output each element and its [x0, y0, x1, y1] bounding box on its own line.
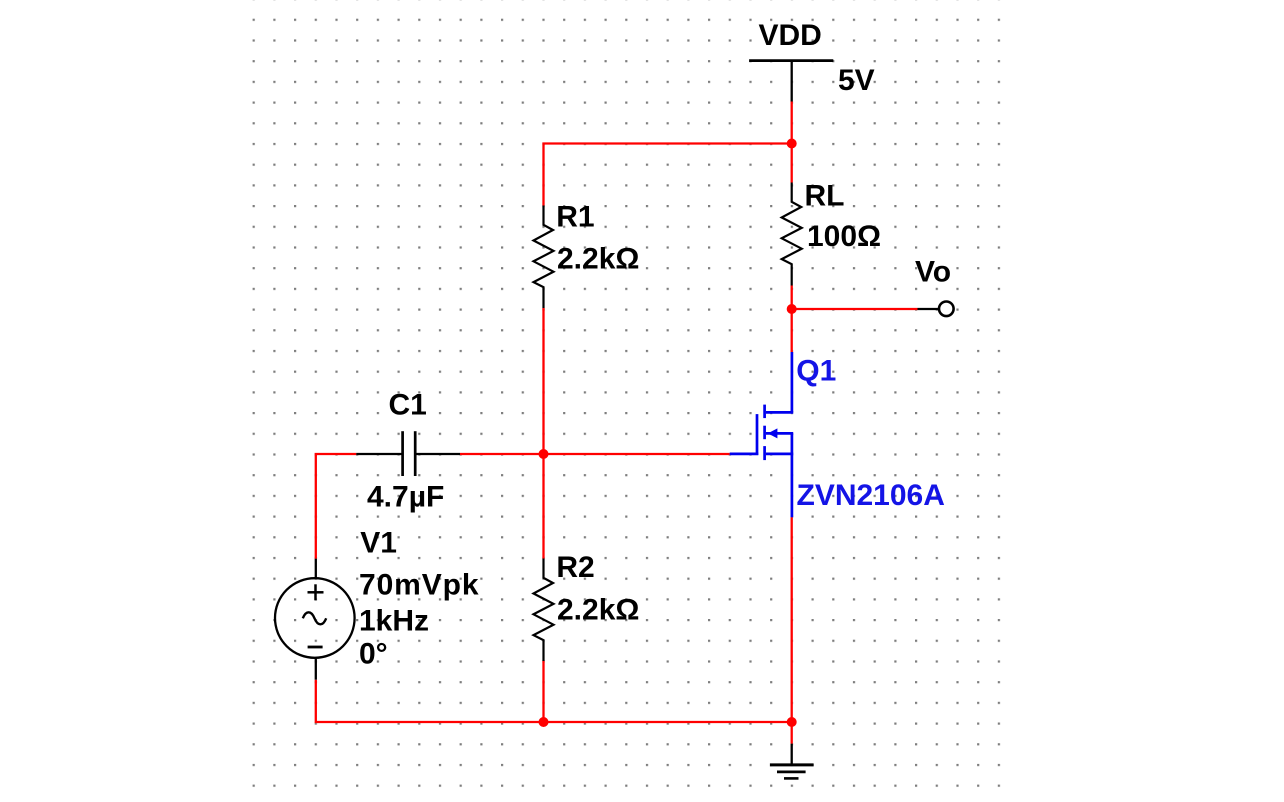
wire Q1 source down to rail [791, 517, 793, 722]
svg-text:2.2kΩ: 2.2kΩ [557, 593, 639, 626]
node junction R1/R2/gate [539, 449, 549, 459]
svg-text:V1: V1 [360, 527, 397, 560]
svg-text:VDD: VDD [759, 19, 822, 52]
svg-text:70mVpk: 70mVpk [359, 568, 479, 601]
svg-text:2.2kΩ: 2.2kΩ [557, 242, 639, 275]
wire R1 bottom to R2 top [542, 308, 544, 559]
svg-text:Q1: Q1 [796, 355, 836, 388]
svg-text:R1: R1 [556, 201, 594, 234]
node junction RL/Q1/Vo [787, 304, 797, 314]
grid dot area [251, 0, 1002, 788]
capacitor C1 [356, 431, 460, 476]
ground symbol [770, 744, 814, 779]
source V1 [275, 559, 355, 680]
node junction R2/rail [539, 717, 549, 727]
svg-text:1kHz: 1kHz [359, 605, 429, 638]
svg-text:RL: RL [805, 180, 845, 213]
node junction VDD/RL/R1 [787, 139, 797, 149]
svg-text:ZVN2106A: ZVN2106A [797, 479, 945, 512]
svg-text:Vo: Vo [915, 256, 951, 289]
wire top horizontal to R1 [544, 144, 792, 206]
svg-text:4.7µF: 4.7µF [367, 481, 444, 514]
resistor R2 [534, 559, 554, 662]
wire C1 left to V1 top [316, 454, 357, 559]
wire V1 bottom to ground rail [316, 680, 792, 722]
power VDD symbol [749, 61, 833, 102]
transistor Q1 MOSFET [730, 352, 794, 517]
resistor R1 [534, 206, 554, 309]
terminal Vo circle [939, 302, 954, 317]
svg-text:0°: 0° [359, 637, 388, 670]
svg-text:C1: C1 [389, 389, 427, 422]
svg-text:R2: R2 [556, 551, 594, 584]
node junction rail/ground [787, 717, 797, 727]
transistor Q1 arrow [768, 428, 778, 438]
svg-text:100Ω: 100Ω [807, 220, 881, 253]
wire C1 to gate [460, 453, 730, 455]
svg-text:5V: 5V [838, 64, 875, 97]
wire rail to ground [791, 722, 793, 744]
wire RL bottom to Q1 drain [791, 286, 793, 353]
wire R2 bottom to rail [542, 661, 544, 723]
resistor RL [782, 183, 802, 286]
terminal Vo lead [918, 308, 940, 310]
wire output to Vo [792, 308, 918, 310]
wire VDD lead to RL [791, 102, 793, 183]
